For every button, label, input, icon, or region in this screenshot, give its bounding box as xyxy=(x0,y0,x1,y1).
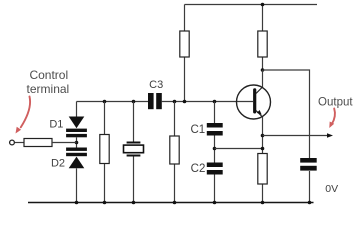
resistor R6 (control series, horizontal) xyxy=(24,139,52,147)
wire: collector lead xyxy=(262,70,264,87)
wire: emitter lead down xyxy=(262,117,264,154)
svg-text:Output: Output xyxy=(318,97,353,109)
wire: top supply rail xyxy=(185,4,318,6)
wire: between D1 and D2 xyxy=(76,137,78,147)
control terminal xyxy=(10,140,15,145)
wire: D1/D2 branch top lead xyxy=(76,102,78,117)
wire: C1 to C2 xyxy=(214,136,216,163)
node: emitter/output junction xyxy=(261,134,265,138)
wire: terminal to series resistor xyxy=(15,142,24,144)
annotation arrow: control (red) xyxy=(16,97,31,134)
node: R3 to ground xyxy=(103,201,107,205)
wire: collector to output dropper (right corner) xyxy=(263,70,310,203)
node: R5 to ground xyxy=(261,201,265,205)
node: bus to R1 xyxy=(183,100,187,104)
svg-text:C1: C1 xyxy=(190,124,205,136)
diode D2 (varicap, cathode up) xyxy=(66,148,87,169)
diode D1 (varicap, cathode down) xyxy=(66,117,87,138)
wire: control resistor to varicap junction xyxy=(52,142,77,144)
svg-text:D2: D2 xyxy=(51,158,65,170)
node: C1/C2 midpoint xyxy=(213,147,217,151)
svg-text:C3: C3 xyxy=(149,79,163,91)
node: bus to C1 xyxy=(213,100,217,104)
resistor R1 (bias, upper left vertical) xyxy=(180,5,189,102)
node: C4 to ground xyxy=(308,201,312,205)
svg-text:0V: 0V xyxy=(325,183,338,195)
node: varicap junction xyxy=(75,141,79,145)
resistor R4 (mid vertical to ground) xyxy=(170,102,179,203)
transistor Q1 xyxy=(237,85,271,119)
node: bus to R4 xyxy=(173,100,177,104)
resistor R5 (emitter, to ground) xyxy=(258,154,267,203)
node: emitter to C1/C2 midpoint wire xyxy=(261,147,265,151)
resistor R3 (left vertical to ground) xyxy=(100,102,109,203)
wire: C1/C2 midpoint to emitter xyxy=(215,148,263,150)
node: R2 to top rail xyxy=(261,3,265,7)
wire: bus down to C1 xyxy=(214,102,216,124)
annotation arrow: output (red) xyxy=(329,109,335,129)
node: C2 to ground xyxy=(213,201,217,205)
wire: output line with arrow xyxy=(263,133,334,138)
wire: D2 to ground bus xyxy=(76,168,78,202)
svg-text:C2: C2 xyxy=(191,163,206,175)
node: D2 to ground xyxy=(75,201,79,205)
resistor R2 (collector load, upper right vertical) xyxy=(258,5,267,71)
crystal X1 xyxy=(124,102,144,203)
svg-text:terminal: terminal xyxy=(27,82,70,96)
node: bus to R3 xyxy=(103,100,107,104)
wire: ground bus 0V xyxy=(28,202,314,204)
wire: main base bus xyxy=(77,101,254,103)
capacitor C1 xyxy=(207,123,223,136)
node: collector junction xyxy=(261,68,265,72)
svg-text:Control: Control xyxy=(29,68,68,82)
node: bus to crystal xyxy=(132,100,136,104)
node: crystal to ground xyxy=(132,201,136,205)
wire: C2 to ground bus xyxy=(214,175,216,203)
capacitor C3 (series in bus) xyxy=(148,93,162,109)
capacitor C2 xyxy=(207,163,223,175)
svg-text:D1: D1 xyxy=(49,119,63,131)
node: R4 to ground xyxy=(173,201,177,205)
capacitor C4 (output branch to ground) xyxy=(300,158,317,171)
